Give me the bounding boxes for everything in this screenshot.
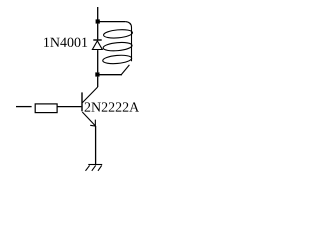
inductor L1 relay coil <box>102 22 132 75</box>
transistor Q1 emitter lead <box>82 112 95 126</box>
wire: supply stub to junction A <box>97 7 99 24</box>
wire: junction B to collector <box>97 77 99 87</box>
transistor Q1 collector lead <box>82 87 97 103</box>
wire: diode cathode lead <box>97 24 99 40</box>
wire: diode anode lead <box>97 50 99 72</box>
transistor Q1 base bar <box>81 92 83 111</box>
wire: junction A to coil top <box>100 21 126 23</box>
wire: input lead <box>16 106 32 108</box>
transistor Q1 emitter arrow <box>90 120 95 127</box>
svg-text:2N2222A: 2N2222A <box>84 101 139 116</box>
diode D1 1N4001 <box>92 40 102 50</box>
wire: resistor to base <box>57 106 81 108</box>
node A junction dot (top) <box>96 19 100 23</box>
wire: emitter to ground <box>95 126 97 164</box>
svg-text:1N4001: 1N4001 <box>43 36 88 51</box>
resistor R1 body <box>35 104 57 113</box>
wire: coil bottom to junction B <box>99 74 122 76</box>
ground symbol <box>86 165 103 171</box>
node B junction dot (bottom) <box>95 72 99 76</box>
